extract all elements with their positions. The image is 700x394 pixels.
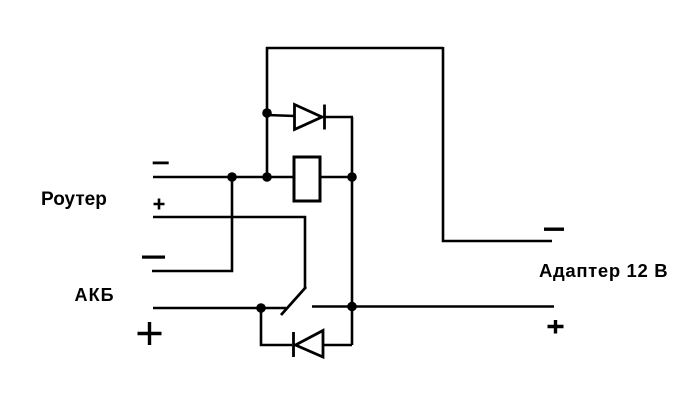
diode VD2 triangle: [296, 331, 324, 358]
node junction bypass right: [347, 302, 357, 312]
node junction bypass left: [256, 303, 266, 313]
terminal router plus symbol: [154, 199, 165, 210]
relay K1 coil: [294, 157, 320, 201]
terminal router minus symbol: [153, 162, 169, 165]
wire relay right lead: [320, 176, 353, 179]
terminal AKB minus symbol: [142, 256, 165, 259]
wire diode VD1 cathode lead: [325, 116, 354, 119]
terminal adapter plus symbol: [548, 320, 564, 334]
node junction router minus / AKB minus: [227, 172, 237, 182]
wire adapter minus run: [443, 47, 552, 241]
wire bypass right segment: [323, 344, 352, 347]
wire left vertical from top to relay row: [266, 47, 269, 178]
svg-text:АКБ: АКБ: [75, 285, 115, 305]
diode VD1 triangle: [295, 105, 323, 130]
node junction relay row / left vertical: [262, 172, 272, 182]
switch S1 blade: [281, 287, 306, 315]
wire right mid vertical (diode to bypass): [351, 117, 354, 345]
wire AKB minus row: [152, 177, 232, 271]
node junction at diode VD1 anode: [262, 108, 272, 118]
diode VD1 cathode bar: [323, 105, 326, 130]
wire bottom right segment: [312, 305, 554, 308]
wire top horizontal: [266, 47, 443, 50]
svg-text:Адаптер 12 В: Адаптер 12 В: [539, 260, 668, 281]
node junction relay right: [347, 172, 357, 182]
wire router plus row: [153, 217, 305, 288]
wire bypass left drop: [261, 308, 292, 345]
wire diode VD1 anode lead: [267, 115, 295, 116]
wire bottom left segment: [153, 307, 286, 310]
terminal AKB plus symbol: [138, 322, 162, 345]
wire router minus row left segment: [153, 176, 294, 179]
svg-text:Роутер: Роутер: [41, 189, 107, 210]
diode VD2 cathode bar: [292, 332, 295, 357]
terminal adapter minus symbol: [544, 228, 564, 231]
